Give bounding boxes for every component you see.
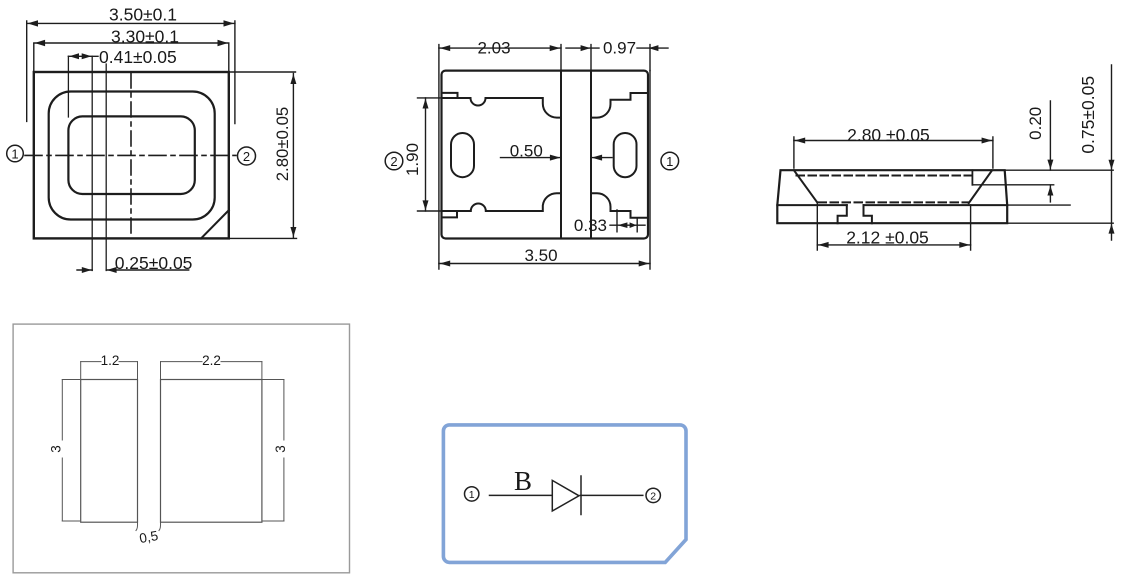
- dimension 3 left extension lines: [62, 380, 79, 522]
- side view notch line extended: [972, 184, 1053, 186]
- side view lead notch right: [864, 205, 872, 223]
- svg-text:3: 3: [273, 445, 288, 453]
- svg-text:0.25±0.05: 0.25±0.05: [115, 253, 193, 273]
- dimension 3.30±0.1 extension lines: [34, 44, 229, 72]
- dimension 3.50 extension lines: [649, 71, 651, 269]
- pad layout right pad: [161, 380, 262, 523]
- svg-text:1: 1: [469, 489, 475, 501]
- dimension 0.50 line with inward arrows: [501, 155, 613, 161]
- svg-text:3.50±0.1: 3.50±0.1: [109, 5, 177, 25]
- wire cathode: [580, 494, 643, 496]
- left pad top edge with notch: [442, 98, 562, 118]
- dimension 1.90 extension lines: [418, 98, 442, 211]
- side view lead seating line right: [864, 204, 1008, 206]
- top view outer reflector ring: [49, 92, 215, 220]
- svg-text:1: 1: [666, 154, 673, 169]
- top view vertical centerline: [130, 73, 132, 238]
- dimension 2.12 line with arrows: [817, 242, 970, 248]
- dimension 3.30±0.1 line with arrows: [34, 40, 229, 46]
- left pad top tab: [442, 93, 458, 98]
- side view body outline: [777, 170, 1007, 223]
- svg-text:0.33: 0.33: [574, 216, 607, 235]
- dimension 3.50±0.1 extension lines: [27, 21, 235, 124]
- side view lead seating line left: [777, 204, 847, 206]
- dimension 2.2 line: [161, 361, 262, 363]
- left pad stadium hole: [451, 133, 474, 177]
- dimension 0.75 line with outside arrows: [1109, 65, 1115, 240]
- schematic frame (blue box with cut corner): [443, 425, 686, 563]
- side view top edge extension: [1005, 169, 1113, 171]
- pad layout left pad: [81, 380, 138, 523]
- pin 2 terminal circle: [646, 488, 660, 502]
- svg-text:2.2: 2.2: [202, 353, 221, 368]
- svg-text:2.80±0.05: 2.80±0.05: [273, 107, 292, 182]
- dimension 2.12 extension lines: [817, 204, 970, 250]
- dimension 0.25±0.05 right extension line: [105, 64, 107, 271]
- side view cup left slant: [794, 170, 817, 202]
- diode D1 triangle: [552, 480, 579, 511]
- dimension 2.03 extension lines: [439, 45, 650, 269]
- pad layout border box: [13, 324, 349, 573]
- dimension 2.80 line with arrows: [794, 138, 993, 144]
- dimension 0.5 extension ticks: [136, 522, 161, 530]
- dimension 1.90 line with arrows: [423, 98, 429, 211]
- dimension 0.97 line with outside arrows: [566, 45, 668, 51]
- svg-text:1.2: 1.2: [101, 353, 120, 368]
- svg-text:B: B: [514, 466, 532, 496]
- top view package outline: [34, 72, 229, 238]
- top edge extension to 2.80 dim: [229, 71, 296, 73]
- dimension 0.33 extension lines: [617, 210, 637, 232]
- svg-text:1.90: 1.90: [403, 143, 422, 176]
- dimension 3.50±0.1 line with arrows: [27, 20, 235, 26]
- left pad bottom edge with notch: [442, 193, 562, 211]
- left pad bottom tab: [442, 211, 458, 217]
- wire anode: [490, 494, 553, 496]
- svg-text:0.97: 0.97: [603, 39, 636, 58]
- side view lead line extension: [1007, 204, 1070, 206]
- svg-text:0.20: 0.20: [1026, 107, 1045, 140]
- svg-text:2.12 ±0.05: 2.12 ±0.05: [846, 228, 929, 248]
- dimension 0.33 line with arrows: [610, 222, 645, 228]
- dimension 3.50 line with arrows: [439, 261, 650, 267]
- center gap left edge line: [560, 71, 562, 239]
- dimension 0.41±0.05 line with arrows: [68, 53, 98, 59]
- side view cup top hidden line: [797, 175, 972, 177]
- right pad top edge with polarity step: [591, 93, 648, 118]
- dimension 0.25±0.05 line with arrows: [77, 267, 189, 273]
- pin 1 callout circle (bottom view): [661, 152, 679, 170]
- side view polarity notch: [971, 170, 973, 185]
- side view cup bottom hidden line: [819, 201, 969, 203]
- svg-text:2: 2: [650, 491, 656, 503]
- svg-text:0.75±0.05: 0.75±0.05: [1078, 76, 1098, 154]
- dimension 2.03 line with arrows: [439, 45, 561, 51]
- side view bottom edge extension: [1007, 222, 1113, 224]
- dimension 3 right line: [283, 380, 285, 522]
- dimension 1.2 line: [81, 361, 138, 363]
- bottom view package outline: [442, 71, 649, 239]
- svg-text:2: 2: [390, 154, 397, 169]
- svg-text:3: 3: [49, 445, 64, 453]
- pin 2 callout circle (bottom view): [385, 152, 403, 170]
- pin 1 terminal circle: [465, 487, 479, 501]
- top view inner reflector ring: [68, 116, 194, 194]
- dimension 2.80 extension lines: [794, 137, 993, 168]
- svg-text:2.80 ±0.05: 2.80 ±0.05: [847, 125, 930, 145]
- dimension 2.2 extension lines: [161, 362, 262, 379]
- pin 1 callout circle: [7, 145, 24, 162]
- dimension 3 right extension lines: [263, 380, 284, 522]
- center gap right edge line: [590, 71, 592, 239]
- bottom edge extension to 2.80 dim: [229, 237, 297, 239]
- svg-text:0,5: 0,5: [138, 528, 159, 546]
- pin 2 callout circle: [238, 147, 256, 165]
- top view horizontal centerline: [25, 154, 236, 156]
- svg-text:2.03: 2.03: [477, 39, 510, 58]
- dimension 0.20 line with outside arrows: [1047, 101, 1053, 202]
- dimension 1.2 extension lines: [81, 362, 138, 379]
- top view chamfer corner: [201, 210, 229, 238]
- dimension 0.41±0.05 extension lines: [68, 56, 92, 270]
- side view lead notch left: [838, 205, 847, 223]
- svg-text:0.50: 0.50: [510, 142, 543, 161]
- svg-text:3.50: 3.50: [524, 246, 557, 265]
- svg-text:1: 1: [11, 147, 18, 162]
- dimension 2.80±0.05 line with arrows: [290, 74, 296, 238]
- right pad stadium hole: [614, 133, 637, 177]
- dimension 3 left line: [61, 380, 63, 522]
- svg-text:0.41±0.05: 0.41±0.05: [99, 47, 177, 67]
- svg-text:3.30±0.1: 3.30±0.1: [111, 27, 179, 47]
- right pad bottom edge with polarity step: [591, 193, 648, 218]
- side view cup right slant: [969, 170, 992, 203]
- svg-text:2: 2: [243, 149, 250, 164]
- diode D1 cathode bar: [580, 476, 582, 515]
